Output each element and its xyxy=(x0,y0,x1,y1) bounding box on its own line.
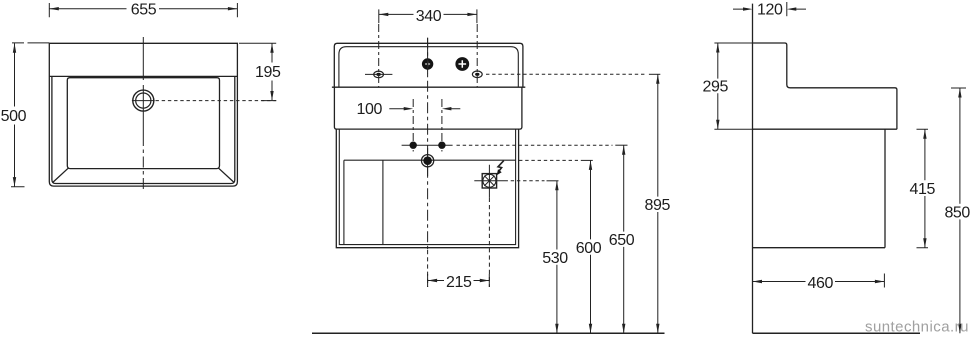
bowl chamfer right xyxy=(219,168,234,182)
dim 460 xyxy=(753,274,885,288)
dim 195 line xyxy=(239,43,276,100)
dim 650 xyxy=(623,145,625,333)
svg-text:600: 600 xyxy=(576,240,602,257)
dim 195 arrows xyxy=(270,43,273,100)
inner bowl rectangle xyxy=(67,78,219,169)
bolts crosshair xyxy=(402,144,453,146)
deck bottom xyxy=(753,128,897,130)
backsplash inner xyxy=(339,47,518,87)
bolt left xyxy=(410,142,417,149)
dim 895 xyxy=(657,74,659,333)
svg-text:500: 500 xyxy=(1,108,27,125)
svg-text:415: 415 xyxy=(910,181,936,198)
profile outline xyxy=(753,43,897,129)
svg-text:suntechnica.ru: suntechnica.ru xyxy=(865,319,969,336)
dim 530 xyxy=(556,181,558,333)
svg-text:195: 195 xyxy=(255,64,281,81)
cabinet interior left panel xyxy=(344,160,383,244)
fixing hole right oval xyxy=(472,71,482,78)
dotted leader drain to 195 xyxy=(156,100,277,102)
dim 655 line xyxy=(49,3,237,17)
siphon drain xyxy=(422,155,434,167)
basin centerline xyxy=(142,135,144,190)
middle floor line xyxy=(312,332,665,334)
basin rim line (band bottom) xyxy=(49,75,237,77)
dim 500 arrows xyxy=(13,43,16,186)
floor line right xyxy=(753,332,921,334)
left oval crosshair xyxy=(365,73,392,75)
backsplash outer xyxy=(334,43,523,87)
bolt axis lines xyxy=(413,99,442,152)
svg-text:530: 530 xyxy=(542,250,568,267)
dim 655 arrows xyxy=(49,7,237,10)
mixer hole right xyxy=(455,57,469,71)
svg-text:120: 120 xyxy=(757,2,783,19)
basin inner wall line xyxy=(52,76,235,183)
svg-text:895: 895 xyxy=(645,197,671,214)
dim 295 xyxy=(714,43,753,129)
svg-text:655: 655 xyxy=(131,1,157,18)
middle centerline xyxy=(427,38,429,250)
hole axis right xyxy=(476,24,478,87)
cabinet outer xyxy=(336,129,518,248)
cabinet interior shelf line xyxy=(344,159,516,161)
cabinet inner xyxy=(339,129,515,245)
centerline dashed extension to 215 xyxy=(427,250,429,287)
svg-text:340: 340 xyxy=(416,8,442,25)
cabinet front xyxy=(884,129,886,248)
drain outer circle xyxy=(133,90,154,111)
drain inner circle xyxy=(136,93,151,108)
dim 500 line xyxy=(11,43,49,187)
dim 340 line xyxy=(379,9,477,23)
faucet hole center xyxy=(422,58,433,69)
dim 120 (outside arrows) xyxy=(733,2,806,16)
svg-text:460: 460 xyxy=(808,275,834,292)
hole axis left xyxy=(378,24,380,87)
dim 340 arrows xyxy=(379,13,477,16)
svg-text:295: 295 xyxy=(703,79,729,96)
cabinet bottom xyxy=(753,247,886,249)
dim 850 xyxy=(951,88,966,333)
svg-text:650: 650 xyxy=(609,232,635,249)
bolt right xyxy=(438,142,445,149)
svg-text:850: 850 xyxy=(944,204,970,221)
svg-text:215: 215 xyxy=(446,274,472,291)
svg-text:100: 100 xyxy=(357,101,383,118)
dotted leader drain to 600 xyxy=(519,159,578,161)
outlet crosshair xyxy=(474,165,504,198)
backsplash bottom edge xyxy=(332,86,525,88)
outlet dashed extension down xyxy=(488,198,490,287)
lightning bolt xyxy=(498,161,504,172)
dim 215 arrows xyxy=(428,279,490,282)
dotted leader hole to 895 xyxy=(486,73,647,75)
outlet box xyxy=(482,174,496,188)
drain crosshair vertical xyxy=(142,37,144,135)
dim 415 xyxy=(917,129,929,248)
dim 600 xyxy=(590,160,592,333)
fixing hole left oval xyxy=(374,71,384,78)
basin outer outline xyxy=(49,43,237,186)
drain crosshair horizontal xyxy=(132,100,155,102)
dim 215 line xyxy=(428,274,490,287)
dim 100 (outside arrows) xyxy=(389,108,460,110)
dotted leader bolts to 650 xyxy=(457,144,613,146)
left wall line xyxy=(752,4,754,334)
dotted leader outlet to 530 xyxy=(505,180,545,182)
apron band xyxy=(334,87,522,129)
bowl chamfer left xyxy=(53,168,68,182)
